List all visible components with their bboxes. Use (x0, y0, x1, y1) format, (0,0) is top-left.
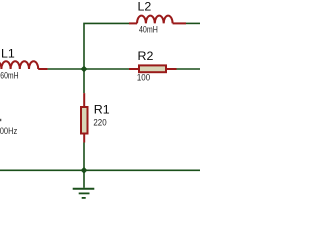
wire (84, 23, 129, 68)
inductor L2 (129, 16, 186, 24)
ground (73, 170, 95, 198)
node junction A (81, 66, 88, 73)
svg-text:60mH: 60mH (0, 70, 18, 80)
inductor L1 (0, 61, 48, 69)
svg-text:L2: L2 (138, 0, 152, 14)
svg-text:R2: R2 (138, 49, 154, 63)
partial text mark at edge (0, 119, 1, 121)
svg-text:00Hz: 00Hz (0, 126, 18, 136)
svg-text:40mH: 40mH (139, 24, 158, 34)
wire (0, 169, 200, 171)
svg-text:R1: R1 (94, 103, 110, 117)
wire (48, 68, 129, 70)
wire (83, 69, 85, 93)
resistor R2 (129, 65, 177, 72)
wire (177, 68, 201, 70)
wire (83, 143, 85, 171)
svg-text:100: 100 (137, 72, 150, 82)
svg-text:220: 220 (93, 118, 106, 128)
svg-text:L1: L1 (1, 46, 15, 60)
wire (186, 22, 200, 24)
node junction B (81, 167, 88, 174)
resistor R1 (81, 93, 88, 142)
